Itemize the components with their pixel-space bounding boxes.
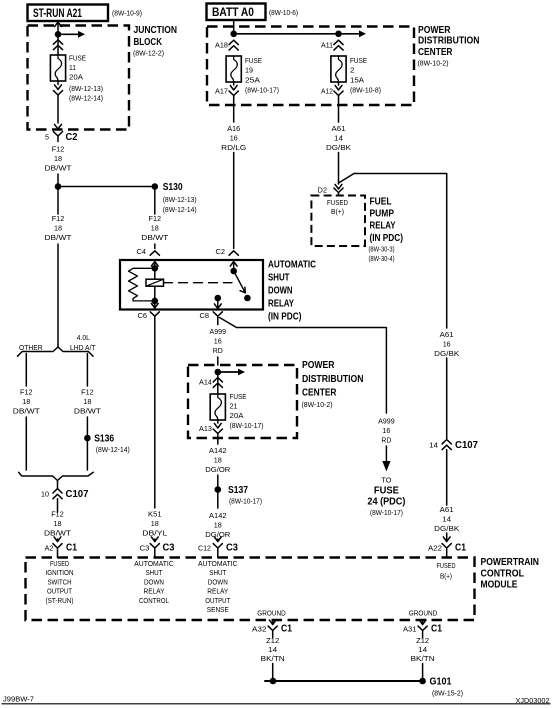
svg-text:F12: F12 [52,214,65,223]
PCM pin A2 function label [46,561,74,605]
svg-text:C1: C1 [66,543,77,554]
ground bus G101 [265,678,426,685]
wire A61 label (DG/BK 14ga) [434,505,459,533]
wire Z12 label (left) [261,638,285,663]
wire A32 to ground bus [272,664,274,682]
svg-text:SHUT: SHUT [209,570,227,577]
svg-text:RELAY: RELAY [144,589,165,596]
svg-text:S136: S136 [94,434,114,445]
svg-text:(8W-12-13): (8W-12-13) [163,195,197,204]
connector C107 (pin 14) [429,440,478,506]
svg-text:A61: A61 [332,124,346,133]
splice S137 [215,485,263,506]
wire fuse 2 to D2 [338,153,340,185]
svg-text:18: 18 [214,456,222,465]
svg-text:C12: C12 [198,546,211,553]
svg-text:11: 11 [69,63,76,72]
PDC (fuse 21) label [302,360,364,409]
svg-text:XJD03002: XJD03002 [516,696,550,705]
fuse 11 (20A) [50,55,65,81]
svg-text:FUSE: FUSE [350,56,367,65]
wire merge to connector C107 [57,481,59,489]
connector pin A12 from fuse 2 [321,82,343,122]
svg-text:POWER: POWER [302,360,335,371]
svg-text:C1: C1 [431,624,442,635]
wire fuse 11 output to C2 [53,81,62,129]
wire F12 label (S130 to relay C4) [141,214,168,242]
svg-text:MODULE: MODULE [481,580,518,591]
svg-text:F12: F12 [81,388,94,397]
wire A142 label (DG/OR upper) [205,446,231,474]
svg-text:Z12: Z12 [416,638,429,645]
bus continuation arrow (junction block) [58,31,85,38]
wire K51 lower segment [151,537,158,542]
PCM pin C3 function label [134,561,174,605]
svg-text:DG/BK: DG/BK [434,524,459,533]
wire A61 label (DG/BK 16ga) [434,330,459,358]
footer drawing number left [3,695,34,704]
svg-text:LHD A/T: LHD A/T [70,343,96,352]
wire A31 to ground bus [422,664,424,682]
svg-text:C1: C1 [281,624,292,635]
svg-text:POWER: POWER [418,25,451,36]
svg-text:F12: F12 [52,145,65,154]
split OTHER vs 4.0L LHD A/T [18,333,96,356]
svg-text:(8W-10-17): (8W-10-17) [230,421,264,430]
svg-text:C107: C107 [455,440,478,451]
relay internal dashed actuator link [164,282,233,284]
relay resistor (parallel with coil) [129,268,155,301]
relay coil element [146,279,164,286]
connector pin A11 into fuse 2 [321,40,343,50]
footer rule [2,703,550,705]
junction block label [133,25,177,58]
PCM ground label (A32) [257,611,286,618]
svg-text:(8W-30-3): (8W-30-3) [369,245,395,254]
svg-text:BATT A0: BATT A0 [212,5,254,19]
svg-text:(8W-12-2): (8W-12-2) [133,49,164,58]
relay switch armature (open) [234,271,251,301]
svg-text:16: 16 [443,340,451,349]
svg-text:DG/BK: DG/BK [434,349,459,358]
svg-text:FUSE: FUSE [69,54,86,63]
connector C1 pin A22 (PCM) [428,543,466,558]
svg-text:AUTOMATIC: AUTOMATIC [134,561,174,568]
connector pin A17 from fuse 19 [215,82,238,122]
svg-text:B(+): B(+) [440,574,452,581]
svg-text:C3: C3 [140,546,150,553]
svg-text:(ST-RUN): (ST-RUN) [46,598,74,605]
svg-text:FUSE: FUSE [245,56,262,65]
connector C2 (junction block, pin 5) [45,132,78,143]
svg-text:DB/WT: DB/WT [45,164,72,173]
svg-text:14: 14 [268,647,277,654]
battery feed box BATT A0 [207,4,299,21]
branch from A61 to right bus [339,174,447,329]
svg-text:CONTROL: CONTROL [481,569,525,580]
svg-text:PUMP: PUMP [370,209,395,220]
svg-text:CONTROL: CONTROL [139,598,169,605]
svg-text:FUSE: FUSE [374,486,399,497]
svg-text:SWITCH: SWITCH [48,579,72,586]
svg-text:BK/TN: BK/TN [411,656,435,663]
svg-text:CENTER: CENTER [302,388,337,399]
wire 4.0L branch (upper) [86,354,88,387]
svg-text:20A: 20A [69,73,83,82]
svg-text:18: 18 [54,154,62,163]
svg-text:DOWN: DOWN [144,579,164,586]
svg-text:A142: A142 [209,511,227,520]
svg-text:(8W-10-17): (8W-10-17) [370,508,403,517]
connector C1 pin A2 (PCM) [45,543,78,558]
svg-text:JUNCTION: JUNCTION [134,25,178,36]
fuel pump relay label [369,197,404,264]
connector C1 pin A32 (ground) [252,620,292,638]
svg-text:10: 10 [41,492,49,499]
wire A999 label (RD) [210,327,227,355]
svg-text:OTHER: OTHER [19,343,43,352]
node junction-block bus dot [55,31,62,38]
svg-text:16: 16 [214,337,222,346]
svg-text:GROUND: GROUND [257,611,286,618]
wire F12 label (left branch) [45,214,72,242]
PCM ground label (A31) [409,611,438,618]
fuse 19 value label [245,56,279,95]
svg-text:14: 14 [429,443,438,450]
svg-text:FUSED: FUSED [437,563,456,570]
svg-text:ST-RUN A21: ST-RUN A21 [33,6,82,20]
wire F12 label (below C107) [44,510,71,538]
svg-text:J99BW-7: J99BW-7 [3,695,34,704]
svg-text:(8W-10-6): (8W-10-6) [269,8,298,17]
relay coil stub to C6 [151,286,158,309]
svg-text:DOWN: DOWN [208,579,228,586]
svg-text:14: 14 [334,134,343,143]
svg-text:A31: A31 [403,627,417,634]
PCM pin C12 function label [198,561,238,614]
svg-text:B(+): B(+) [331,209,344,216]
svg-text:C2: C2 [216,249,226,256]
fuse 2 value label [350,56,381,95]
svg-text:(8W-10-8): (8W-10-8) [350,86,381,95]
svg-text:18: 18 [83,397,91,406]
svg-text:18: 18 [54,224,62,233]
svg-text:IGNITION: IGNITION [46,570,74,577]
svg-text:DISTRIBUTION: DISTRIBUTION [418,36,480,47]
svg-text:(8W-12-14): (8W-12-14) [96,445,130,454]
wire A61 to PCM pin A22 [443,533,450,542]
node fuse 21 feed dot with continuation arrow [215,369,246,376]
svg-text:(8W-10-17): (8W-10-17) [229,497,262,506]
svg-text:DB/WT: DB/WT [141,233,168,242]
connector C3 pin C3 (PCM) [140,543,175,558]
svg-text:F12: F12 [20,388,33,397]
svg-text:A18: A18 [215,43,228,50]
svg-text:DG/BK: DG/BK [326,143,351,152]
svg-text:BLOCK: BLOCK [134,37,163,48]
svg-text:FUSE: FUSE [230,392,247,401]
connector C6 (relay coil -) [138,312,160,325]
relay coil stub from C4 [151,260,158,279]
fuse 21 (20A) [210,394,225,420]
svg-text:(IN PDC): (IN PDC) [370,233,404,244]
svg-text:SHUT: SHUT [268,273,290,284]
junction block dashed enclosure [28,26,130,130]
wire A16 label (RD/LG) [221,124,246,152]
wire A142 label (DG/OR lower) [205,511,231,539]
svg-text:C3: C3 [163,543,175,554]
svg-text:A16: A16 [227,124,240,133]
svg-text:S130: S130 [163,182,183,193]
svg-text:16: 16 [382,426,390,435]
svg-text:AUTOMATIC: AUTOMATIC [198,561,238,568]
svg-text:(8W-12-13): (8W-12-13) [69,84,103,93]
power distribution center dashed enclosure [207,27,414,106]
connector pin A14 into fuse 21 [199,378,222,388]
svg-text:BK/TN: BK/TN [261,656,285,663]
svg-text:DG/OR: DG/OR [205,530,231,539]
svg-text:POWERTRAIN: POWERTRAIN [481,557,540,568]
wire OTHER branch (upper) [25,354,27,387]
svg-text:A61: A61 [440,330,454,339]
svg-text:(8W-12-14): (8W-12-14) [69,94,103,103]
connector D2 (fuel pump relay) [318,184,344,195]
relay switch contact to C8 [214,295,221,310]
svg-text:RD: RD [381,436,392,445]
svg-text:(8W-10-9): (8W-10-9) [112,9,142,18]
svg-text:18: 18 [151,224,159,233]
connector C2 (relay switch common) [216,249,239,256]
PDC (fuse 21) dashed enclosure [188,365,297,438]
wire C107 to PCM pin A2 [54,537,61,542]
svg-text:Z12: Z12 [266,638,279,645]
wire A61 label (DG/BK upper) [326,124,351,152]
wire fuse 21 to S137 [217,475,219,490]
connector C3 pin C12 (PCM) [198,543,238,558]
svg-text:F12: F12 [51,510,64,519]
svg-text:A999: A999 [210,327,227,336]
splice S136 [84,434,130,455]
connector pin A13 from fuse 21 [199,420,222,444]
wire S130 to OTHER/4.0L split [57,187,59,348]
connector chevrons into fuse 11 [53,40,62,50]
svg-text:DB/WT: DB/WT [74,407,101,416]
wire F12 label (below C2) [45,145,72,173]
svg-text:20A: 20A [230,411,244,420]
wire from ST-RUN A21 into junction block [55,21,62,55]
fuse 21 value label [230,392,264,430]
svg-text:DB/WT: DB/WT [45,233,72,242]
svg-text:OUTPUT: OUTPUT [47,589,73,596]
svg-text:DG/OR: DG/OR [205,465,231,474]
svg-text:24 (PDC): 24 (PDC) [367,497,405,508]
svg-text:2: 2 [350,66,355,75]
svg-text:CENTER: CENTER [418,47,453,58]
wire S130 to relay C4 [154,187,156,249]
svg-text:RELAY: RELAY [268,299,294,310]
svg-text:A142: A142 [209,446,227,455]
connector C107 (pin 10) [41,489,89,512]
arrow to FUSE 24 (PDC) [367,446,405,517]
svg-text:S137: S137 [228,485,248,496]
svg-text:G101: G101 [430,677,452,688]
svg-text:D2: D2 [318,188,328,195]
svg-text:C107: C107 [66,489,89,500]
wire C8 to PDC fuse 21 [217,357,219,365]
powertrain control module label [481,557,540,591]
svg-text:RELAY: RELAY [370,221,396,232]
svg-text:18: 18 [214,521,222,530]
footer drawing number right [516,696,550,705]
merge bracket of OTHER/4.0L branches [19,472,94,480]
svg-text:14: 14 [418,647,427,654]
splice S130 [55,182,197,214]
svg-text:(8W-10-2): (8W-10-2) [302,400,333,409]
svg-text:(IN PDC): (IN PDC) [268,312,302,323]
svg-text:C6: C6 [138,313,148,320]
wire S137 to PCM segment [217,490,219,508]
svg-text:FUEL: FUEL [370,197,392,208]
svg-text:C8: C8 [200,313,210,320]
automatic shut down relay box [120,260,263,310]
svg-text:16: 16 [230,134,238,143]
wire OTHER branch (lower) [25,417,27,470]
wire K51 label (DB/YL) [142,510,167,538]
svg-text:A12: A12 [321,89,333,96]
svg-text:F12: F12 [149,214,162,223]
svg-text:DB/WT: DB/WT [13,407,40,416]
powertrain control module dashed enclosure [26,558,475,621]
svg-text:14: 14 [442,515,451,524]
svg-text:C2: C2 [66,132,78,143]
svg-text:FUSED: FUSED [327,200,348,207]
svg-text:C4: C4 [137,249,147,256]
connector C4 (relay coil +) [137,249,160,256]
svg-text:A11: A11 [321,43,333,50]
connector pin A18 into fuse 19 [215,40,238,50]
fuel pump relay FUSED B(+) label [327,200,348,216]
wire fuse 19 to relay C2 [233,153,235,249]
svg-text:C1: C1 [455,543,466,554]
wire F12 label (OTHER branch) [13,388,40,416]
power distribution center label [418,25,480,68]
svg-text:TO: TO [381,476,391,485]
svg-text:C3: C3 [226,543,238,554]
svg-text:GROUND: GROUND [409,611,438,618]
wire C2 to splice S130 [57,174,59,187]
svg-text:A17: A17 [215,89,228,96]
svg-text:DB/WT: DB/WT [44,529,71,538]
automatic shut down relay label [268,260,316,323]
wire Z12 label (right) [411,638,435,663]
svg-text:SENSE: SENSE [207,607,229,614]
wire right bus upper segment [446,358,448,439]
svg-text:(8W-15-2): (8W-15-2) [432,689,463,698]
svg-text:DISTRIBUTION: DISTRIBUTION [302,374,364,385]
wire dot to A14 [217,372,219,394]
svg-text:(8W-12-14): (8W-12-14) [163,205,197,214]
ground G101 label [430,677,464,698]
svg-text:18: 18 [22,397,30,406]
wire A142 lower segment [214,537,221,542]
svg-text:A13: A13 [199,426,212,433]
svg-text:18: 18 [54,519,62,528]
svg-text:RD/LG: RD/LG [221,143,246,152]
svg-text:5: 5 [45,135,49,142]
svg-text:4.0L: 4.0L [77,333,90,342]
svg-text:(8W-10-17): (8W-10-17) [245,86,279,95]
svg-text:21: 21 [230,402,238,411]
svg-text:AUTOMATIC: AUTOMATIC [268,260,316,271]
svg-text:DOWN: DOWN [268,286,293,297]
branch from C8 to fuse 24 feed [220,318,387,414]
svg-text:15A: 15A [350,76,364,85]
wire A999 label (to fuse 24) [378,417,395,445]
connector C1 pin A31 (ground) [403,620,442,638]
svg-text:A999: A999 [378,417,395,426]
relay switch common stub [230,260,237,274]
svg-text:18: 18 [151,519,159,528]
svg-text:OUTPUT: OUTPUT [205,598,231,605]
svg-text:(8W-10-2): (8W-10-2) [418,59,449,68]
PDC bus with continuation arrow [230,30,366,37]
svg-text:19: 19 [245,66,253,75]
svg-text:(8W-30-4): (8W-30-4) [369,254,395,263]
svg-text:DB/YL: DB/YL [142,529,167,538]
wire 4.0L branch (lower) [86,417,88,470]
connector C8 (relay output) [200,312,223,325]
wire F12 label (4.0L branch) [74,388,101,416]
fuse 11 value label [69,54,103,103]
fuse 19 (25A) [226,56,241,82]
svg-text:A61: A61 [440,505,454,514]
svg-text:FUSED: FUSED [50,561,69,568]
wire BATT A0 into PDC [233,20,235,34]
fuel pump relay dashed enclosure [311,196,365,247]
battery feed box ST-RUN A21 [28,5,143,22]
svg-text:A22: A22 [428,546,442,553]
svg-text:A32: A32 [252,627,267,634]
svg-text:A2: A2 [45,546,54,553]
svg-text:RELAY: RELAY [207,589,228,596]
svg-text:A14: A14 [199,380,212,387]
svg-text:25A: 25A [245,76,260,85]
svg-text:SHUT: SHUT [146,570,164,577]
PCM pin A22 function label [437,563,456,581]
svg-text:K51: K51 [148,510,162,519]
wire C6 to PCM pin C3 [154,325,156,509]
svg-text:RD: RD [213,346,224,355]
fuse 2 (15A) [331,56,346,82]
